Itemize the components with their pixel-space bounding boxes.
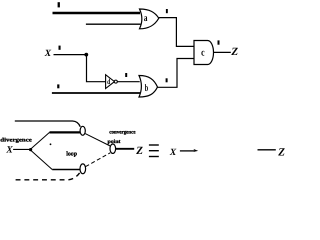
inverter d: [106, 75, 118, 89]
equivalence symbol: [149, 144, 159, 157]
svg-text:Z: Z: [230, 46, 238, 58]
wire loop top line: [15, 121, 81, 127]
node lower ellipse: [80, 164, 86, 174]
wire gate b output to gate c: [158, 59, 195, 88]
wire into Z (right equivalent diagram): [258, 149, 276, 151]
svg-text:Z: Z: [135, 145, 143, 157]
wire diagonal to reconvergence ellipse: [85, 134, 110, 146]
and-gate c: [194, 41, 214, 65]
wire junction down to inverter: [87, 55, 106, 82]
node upper ellipse: [80, 126, 85, 135]
label 1 on X wire: [59, 46, 61, 50]
svg-text:b: b: [145, 83, 149, 94]
wire horizontal into lower ellipse: [52, 169, 80, 171]
or-gate a: [140, 9, 159, 29]
wire diagonal down to lower path: [30, 150, 52, 170]
stray speck: [50, 143, 52, 145]
wire thick into upper ellipse: [50, 131, 81, 133]
label 1 on top input: [58, 2, 60, 7]
wire bottom input line (thick): [52, 92, 140, 94]
svg-text:loop: loop: [66, 150, 77, 157]
svg-text:divergence: divergence: [0, 138, 32, 144]
wire top input line (thick): [53, 12, 141, 14]
wire inverter output to gate b: [117, 81, 139, 83]
svg-text:X: X: [169, 148, 177, 158]
label 1 on bottom input: [57, 84, 59, 88]
wire from X to junction: [54, 54, 87, 56]
svg-text:point: point: [108, 139, 121, 145]
svg-text:X: X: [44, 49, 52, 59]
svg-text:a: a: [144, 13, 148, 24]
label 1 on gate a output: [166, 9, 168, 13]
wire X to divergence point: [13, 148, 30, 150]
wire gate a output to gate c: [159, 18, 194, 47]
junction divergence point: [29, 148, 32, 151]
wire second input of gate a: [86, 23, 141, 25]
wire dashed bottom loop: [16, 173, 80, 180]
svg-text:X: X: [5, 146, 13, 156]
wire diagonal up to thick path: [30, 132, 50, 149]
label 1 on gate c output: [218, 40, 220, 44]
wire dashed diagonal to reconvergence ellipse: [86, 153, 111, 167]
junction dot: [84, 53, 88, 57]
svg-text:c: c: [201, 48, 205, 59]
wire gate c output: [214, 51, 231, 53]
arrow: [180, 149, 198, 152]
wire thick output of reconvergence: [116, 148, 135, 150]
svg-text:Z: Z: [277, 147, 285, 159]
svg-text:convergence: convergence: [109, 129, 136, 135]
label 1 on gate b output: [166, 78, 168, 82]
or-gate b: [139, 76, 158, 98]
node reconvergence ellipse: [110, 144, 116, 153]
label 1 on inverter output: [125, 73, 127, 77]
